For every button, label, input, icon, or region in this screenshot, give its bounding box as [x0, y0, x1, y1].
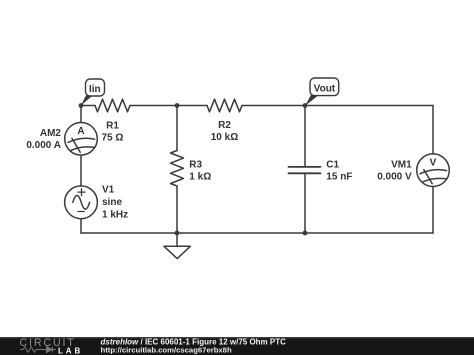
- wire Vout node to C1: [304, 106, 306, 167]
- flag Vout: [305, 78, 339, 106]
- svg-text:R3: R3: [189, 159, 202, 170]
- label VM1: [377, 160, 412, 183]
- label C1: [326, 160, 352, 183]
- svg-text:0.000 V: 0.000 V: [377, 172, 412, 183]
- flag Iin: [81, 79, 105, 106]
- ground: [164, 233, 190, 259]
- resistor R2: [207, 99, 242, 112]
- label V1: [102, 185, 128, 221]
- label R1: [102, 120, 124, 143]
- svg-text:10 kΩ: 10 kΩ: [211, 132, 238, 143]
- wire R1 to node B: [130, 105, 207, 107]
- svg-text:V: V: [430, 157, 437, 168]
- svg-text:VM1: VM1: [391, 160, 412, 171]
- node Vout junction dot: [303, 103, 308, 108]
- svg-text:http://circuitlab.com/cscag67e: http://circuitlab.com/cscag67erbx8h: [101, 345, 232, 354]
- node B junction dot (R1/R2/R3): [175, 103, 180, 108]
- wire R2 to top right corner: [242, 105, 433, 107]
- wire VM1 to bottom rail: [432, 187, 434, 234]
- svg-text:Vout: Vout: [314, 83, 336, 94]
- svg-text:75 Ω: 75 Ω: [102, 132, 124, 143]
- wire bottom rail: [81, 232, 433, 234]
- svg-text:R2: R2: [218, 120, 231, 131]
- resistor R3: [171, 151, 184, 187]
- resistor R1: [95, 99, 130, 112]
- wire node B to R3: [176, 106, 178, 151]
- ground node junction dot: [175, 231, 180, 236]
- logo resistor squiggle and diode: [20, 347, 56, 353]
- wire AM2 to V1: [80, 155, 82, 186]
- svg-text:R1: R1: [106, 120, 119, 131]
- wire node A to AM2 top: [80, 106, 82, 123]
- svg-text:Iin: Iin: [89, 84, 101, 95]
- voltage source V1: [65, 186, 98, 219]
- footer bar: [0, 337, 474, 355]
- wire C1 to bottom rail: [304, 175, 306, 234]
- voltmeter VM1: [417, 154, 450, 187]
- svg-text:C1: C1: [326, 160, 339, 171]
- C1 bottom junction dot: [303, 231, 308, 236]
- wire R3 to bottom rail: [176, 186, 178, 233]
- svg-text:A: A: [77, 126, 84, 137]
- label AM2: [26, 128, 61, 151]
- svg-text:V1: V1: [102, 185, 115, 196]
- ammeter AM2: [65, 123, 98, 156]
- svg-text:1 kHz: 1 kHz: [102, 209, 128, 220]
- label R2: [211, 120, 238, 143]
- capacitor C1: [289, 167, 321, 173]
- wire V1 to bottom rail: [80, 219, 82, 233]
- label R3: [189, 159, 211, 182]
- wire top left node to R1: [81, 105, 95, 107]
- svg-text:0.000 A: 0.000 A: [26, 140, 61, 151]
- svg-text:sine: sine: [102, 197, 122, 208]
- svg-text:1 kΩ: 1 kΩ: [189, 172, 211, 183]
- svg-text:15 nF: 15 nF: [326, 172, 352, 183]
- svg-text:LAB: LAB: [58, 347, 83, 355]
- wire top right corner to VM1: [432, 106, 434, 154]
- node A junction dot (Iin node): [79, 103, 84, 108]
- svg-text:AM2: AM2: [40, 128, 62, 139]
